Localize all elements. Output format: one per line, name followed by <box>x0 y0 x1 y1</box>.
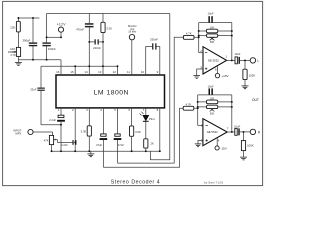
resistor 100K op1 <box>242 60 256 88</box>
resistor 3.3K pin13 top <box>101 14 112 33</box>
resistor 22K <box>10 18 20 47</box>
resistor 3.9K pin6 <box>130 126 141 151</box>
svg-text:16: 16 <box>56 70 60 74</box>
resistor 10K fb1 <box>199 27 232 33</box>
capacitor 10uF out1 <box>227 52 251 64</box>
svg-text:3.3K: 3.3K <box>106 26 112 30</box>
pin 3 <box>86 108 89 126</box>
svg-text:390pF: 390pF <box>22 39 30 43</box>
svg-text:2.2uF: 2.2uF <box>49 118 56 122</box>
wire bus C pin5 to 4.7K upper <box>118 37 184 163</box>
svg-text:MPX: MPX <box>15 131 21 135</box>
svg-text:47K: 47K <box>44 138 49 142</box>
potentiometer 47K input <box>44 135 58 151</box>
LED Pilot <box>140 112 155 139</box>
op-amp U3 NE5532 lower <box>198 119 229 146</box>
svg-text:NE 5532: NE 5532 <box>207 130 218 134</box>
svg-text:3.9K: 3.9K <box>135 130 141 134</box>
capacitor 2.2uF <box>49 115 65 151</box>
supply +15V op1 <box>215 66 230 78</box>
wire stage1 fb top <box>199 22 232 24</box>
capacitor 220nF <box>89 39 103 50</box>
svg-text:14: 14 <box>84 70 88 74</box>
capacitor 10uF fb1 <box>208 11 214 22</box>
capacitor 2.2nF <box>57 140 76 147</box>
supply -15V op2 <box>215 138 228 151</box>
wire +12V rail <box>47 36 61 38</box>
svg-text:L: L <box>257 59 259 63</box>
capacitor 390pF <box>22 18 37 60</box>
terminal L <box>250 58 259 63</box>
pin 5 <box>114 108 117 134</box>
svg-text:220nF: 220nF <box>93 46 101 50</box>
ground op2 plus input <box>195 140 203 146</box>
resistor 100K op2 <box>240 132 254 160</box>
svg-text:10uF: 10uF <box>234 52 240 56</box>
svg-text:LM 1800N: LM 1800N <box>94 90 129 97</box>
svg-text:-15V: -15V <box>220 147 227 151</box>
svg-text:OUT: OUT <box>252 98 259 102</box>
svg-text:11: 11 <box>127 70 130 74</box>
svg-text:3.3K: 3.3K <box>81 129 87 133</box>
ground <box>15 60 22 66</box>
pin 12 <box>113 66 118 75</box>
capacitor 10uF out2 <box>227 125 250 136</box>
capacitor 470nF <box>76 14 93 32</box>
pin 4 <box>100 108 103 134</box>
pin 1 <box>58 108 61 115</box>
wire bus B top rail down <box>150 14 169 160</box>
svg-text:4.7K: 4.7K <box>186 102 192 106</box>
op-amp U2 NE5532 upper <box>199 47 227 74</box>
+12V supply terminal <box>57 23 67 38</box>
capacitor 330nF <box>146 38 160 75</box>
wire stage2 fb right <box>231 95 233 132</box>
svg-text:10K: 10K <box>210 27 215 30</box>
svg-text:33nF: 33nF <box>30 88 36 92</box>
wire node stage1 <box>198 23 200 53</box>
wire pin bus <box>41 65 118 67</box>
svg-text:10K: 10K <box>210 98 215 101</box>
svg-text:4.7K: 4.7K <box>10 53 16 57</box>
pin 10 <box>141 70 145 74</box>
wire ground rail left <box>18 59 61 61</box>
pin 6 <box>128 108 131 126</box>
wire stage1 fb right <box>231 23 233 61</box>
terminal R <box>250 129 261 134</box>
wire stage2 fb top <box>198 94 232 96</box>
capacitor 10uF fb2 <box>208 84 214 94</box>
ground op1 plus input <box>193 69 203 78</box>
svg-text:by Sam 7.103: by Sam 7.103 <box>204 180 223 184</box>
pin 11 <box>127 70 130 74</box>
svg-text:13: 13 <box>98 70 102 74</box>
svg-text:22K: 22K <box>10 26 15 30</box>
terminal Monitor Out 19 kHz <box>128 24 137 75</box>
svg-text:+15V: +15V <box>221 74 229 78</box>
svg-text:10: 10 <box>141 70 145 74</box>
capacitor 33nF <box>30 66 61 125</box>
ground bottom <box>87 151 94 157</box>
resistor 10K fb2 <box>198 98 232 104</box>
svg-text:2K: 2K <box>150 142 154 146</box>
pin 16 <box>56 60 61 75</box>
svg-text:47uF: 47uF <box>96 143 102 147</box>
wire bus D pin4 to 4.7K lower <box>103 108 183 167</box>
border frame <box>3 1 263 185</box>
potentiometer ADJ 19KHZ 4.7K <box>8 47 21 60</box>
pin 14 <box>84 27 89 75</box>
capacitor 47uF left <box>96 134 107 167</box>
wire node stage2 <box>197 95 199 126</box>
svg-text:10uF: 10uF <box>208 84 214 88</box>
svg-text:50K: 50K <box>210 41 215 44</box>
pin 13 <box>98 33 103 75</box>
pin 9 <box>157 70 159 74</box>
svg-text:100K: 100K <box>247 144 254 148</box>
resistor 4.7K upper <box>183 31 198 39</box>
svg-text:4.7K: 4.7K <box>186 31 192 35</box>
svg-text:10uF: 10uF <box>208 11 214 15</box>
resistor 4.7K lower <box>183 102 198 110</box>
svg-text:470nF: 470nF <box>76 27 84 31</box>
pin 15 <box>70 66 75 75</box>
svg-text:2.2nF: 2.2nF <box>61 143 68 147</box>
terminal INPUT MPX <box>13 128 52 135</box>
svg-text:100nF: 100nF <box>48 47 56 51</box>
svg-text:50K: 50K <box>210 112 215 115</box>
svg-text:NE 5532: NE 5532 <box>208 59 219 63</box>
potentiometer 50K fb1 <box>199 34 232 44</box>
wire top rail <box>47 13 170 15</box>
resistor 2K <box>144 139 154 151</box>
wire ground rail bottom <box>52 150 160 152</box>
svg-text:10uF: 10uF <box>234 125 240 129</box>
wire top-left rail <box>18 17 39 19</box>
svg-text:19 kHz: 19 kHz <box>128 30 137 34</box>
pin 8 <box>157 108 160 151</box>
capacitor 100nF <box>42 14 56 60</box>
svg-text:12: 12 <box>113 70 117 74</box>
pin 2 <box>72 108 75 151</box>
svg-text:Stereo Decoder 4: Stereo Decoder 4 <box>111 180 160 186</box>
potentiometer 50K fb2 <box>198 105 232 115</box>
svg-text:47uF: 47uF <box>118 143 124 147</box>
svg-text:15: 15 <box>70 70 74 74</box>
svg-text:100K: 100K <box>249 74 256 78</box>
svg-text:Pilot: Pilot <box>149 117 155 121</box>
svg-text:+12V: +12V <box>57 23 67 27</box>
resistor 3.3K pin3 <box>81 126 92 151</box>
capacitor 47uF right <box>114 134 125 163</box>
IC U1 LM 1800N <box>56 75 165 108</box>
svg-text:330nF: 330nF <box>150 38 158 42</box>
pin 7 <box>143 108 146 115</box>
